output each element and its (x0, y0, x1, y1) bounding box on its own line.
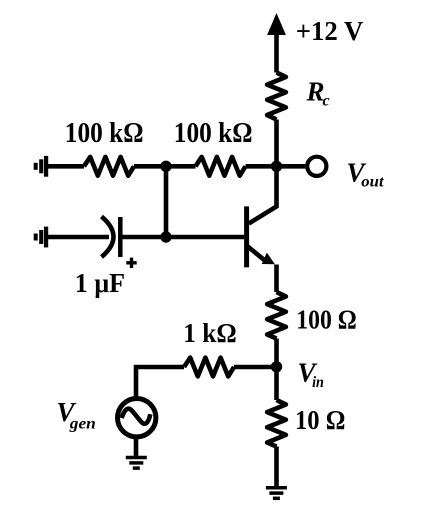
svg-text:c: c (323, 93, 330, 110)
svg-text:1 kΩ: 1 kΩ (183, 318, 237, 348)
svg-text:1 μF: 1 μF (75, 268, 125, 298)
svg-text:gen: gen (69, 415, 96, 432)
svg-text:in: in (312, 374, 324, 391)
svg-text:10 Ω: 10 Ω (295, 405, 345, 435)
svg-text:100 kΩ: 100 kΩ (174, 118, 253, 149)
svg-text:out: out (361, 174, 384, 191)
svg-text:100 kΩ: 100 kΩ (65, 118, 144, 149)
svg-text:100 Ω: 100 Ω (296, 305, 357, 335)
svg-text:+12 V: +12 V (296, 16, 364, 46)
